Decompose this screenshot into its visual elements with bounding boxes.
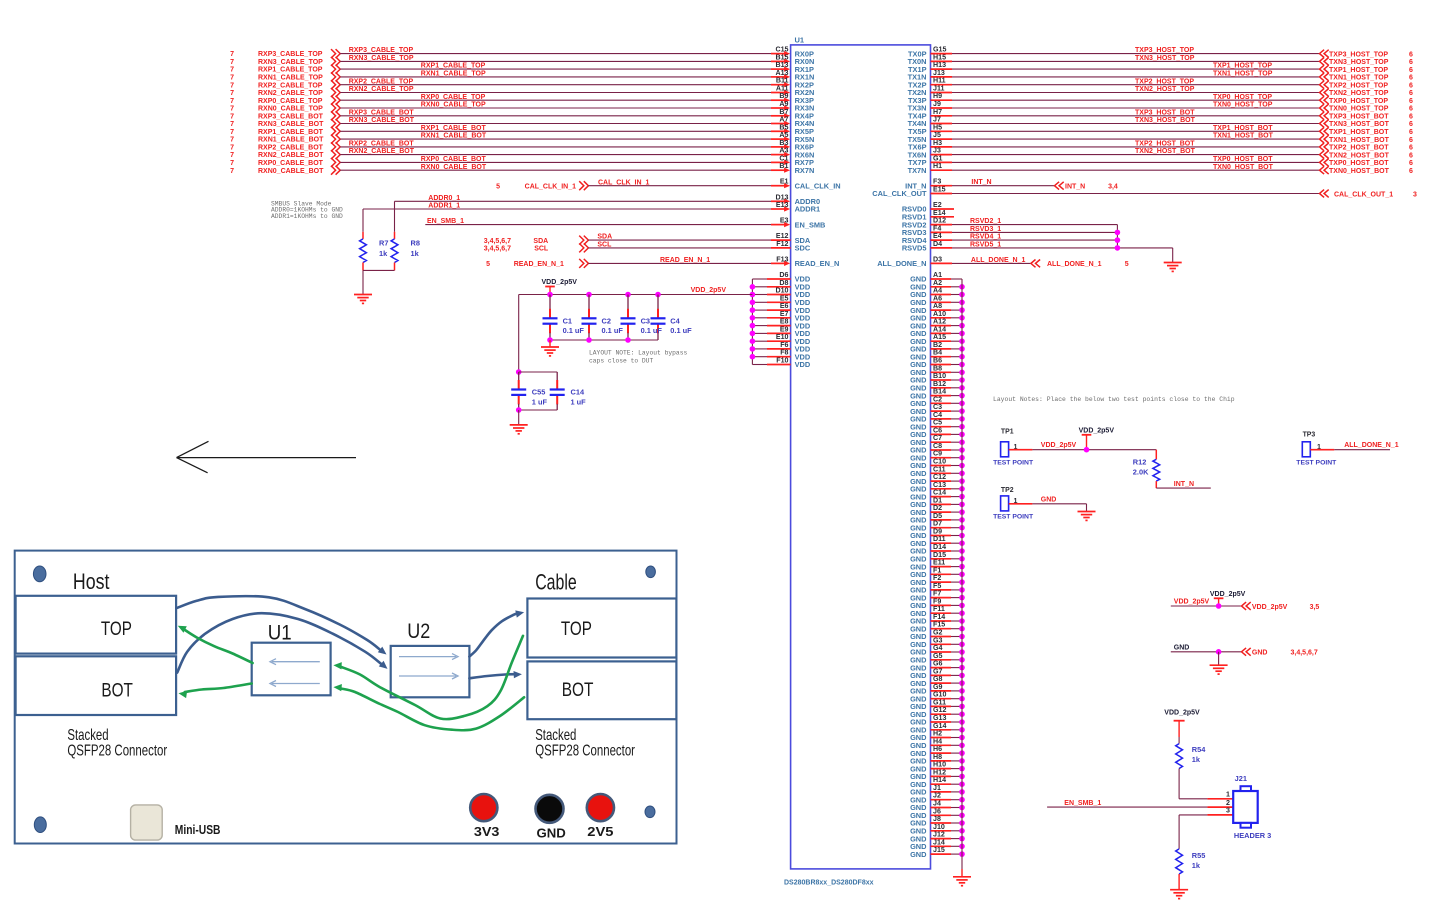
svg-text:G5: G5 <box>933 652 943 660</box>
svg-text:1: 1 <box>1226 791 1230 799</box>
svg-text:6: 6 <box>1409 160 1413 167</box>
svg-text:E15: E15 <box>933 186 946 194</box>
svg-text:RXN2_CABLE_BOT: RXN2_CABLE_BOT <box>258 152 324 159</box>
svg-text:7: 7 <box>230 75 234 82</box>
svg-text:F11: F11 <box>933 605 945 613</box>
svg-text:TXN0_HOST_TOP: TXN0_HOST_TOP <box>1213 102 1273 109</box>
svg-text:G2: G2 <box>933 629 943 637</box>
svg-text:INT_N: INT_N <box>1174 481 1194 488</box>
svg-text:R54: R54 <box>1192 745 1206 754</box>
svg-text:TXN0_HOST_BOT: TXN0_HOST_BOT <box>1213 164 1274 171</box>
svg-text:6: 6 <box>1409 168 1413 175</box>
svg-text:6: 6 <box>1409 114 1413 121</box>
svg-text:7: 7 <box>230 113 234 120</box>
svg-text:C13: C13 <box>933 481 946 489</box>
svg-text:Stacked: Stacked <box>535 727 576 744</box>
svg-text:EN_SMB_1: EN_SMB_1 <box>1064 800 1101 807</box>
svg-text:RXP0_CABLE_BOT: RXP0_CABLE_BOT <box>258 160 324 167</box>
svg-text:TXP2_HOST_BOT: TXP2_HOST_BOT <box>1135 141 1195 148</box>
svg-text:7: 7 <box>230 59 234 66</box>
svg-text:CAL_CLK_IN_1: CAL_CLK_IN_1 <box>525 184 576 191</box>
svg-text:E14: E14 <box>933 209 946 217</box>
svg-text:3: 3 <box>1226 807 1230 815</box>
svg-text:RSVD5: RSVD5 <box>902 244 927 253</box>
svg-text:3V3: 3V3 <box>474 824 500 839</box>
svg-text:E5: E5 <box>780 294 789 302</box>
svg-text:C3: C3 <box>641 316 650 325</box>
svg-text:VDD_2p5V: VDD_2p5V <box>1252 604 1288 611</box>
svg-text:C4: C4 <box>933 411 942 419</box>
svg-text:C14: C14 <box>571 388 585 397</box>
svg-text:E7: E7 <box>780 310 789 318</box>
svg-text:6: 6 <box>1409 145 1413 152</box>
svg-text:7: 7 <box>230 90 234 97</box>
svg-text:B10: B10 <box>933 372 946 380</box>
svg-text:7: 7 <box>230 145 234 152</box>
svg-text:TXP2_HOST_BOT: TXP2_HOST_BOT <box>1329 145 1389 152</box>
svg-text:TXN1_HOST_BOT: TXN1_HOST_BOT <box>1329 137 1390 144</box>
svg-text:C2: C2 <box>602 316 611 325</box>
svg-text:2: 2 <box>1226 799 1230 807</box>
svg-text:A6: A6 <box>933 294 942 302</box>
svg-text:READ_EN_N_1: READ_EN_N_1 <box>660 257 710 264</box>
svg-text:D2: D2 <box>933 504 942 512</box>
svg-text:Mini-USB: Mini-USB <box>175 823 221 837</box>
svg-text:RSVD2_1: RSVD2_1 <box>970 218 1001 225</box>
svg-text:J2: J2 <box>933 792 941 800</box>
svg-text:RXP2_CABLE_TOP: RXP2_CABLE_TOP <box>349 78 414 85</box>
svg-text:R7: R7 <box>379 239 388 248</box>
svg-text:ALL_DONE_N_1: ALL_DONE_N_1 <box>1047 261 1102 268</box>
svg-text:B1: B1 <box>779 162 788 170</box>
svg-text:6: 6 <box>1409 121 1413 128</box>
svg-text:C2: C2 <box>933 395 942 403</box>
svg-text:H2: H2 <box>933 730 942 738</box>
svg-text:D7: D7 <box>933 520 942 528</box>
svg-text:TP1: TP1 <box>1001 429 1014 436</box>
svg-text:C6: C6 <box>933 426 942 434</box>
svg-text:RXP3_CABLE_BOT: RXP3_CABLE_BOT <box>258 113 324 120</box>
svg-text:7: 7 <box>230 152 234 159</box>
svg-text:TP2: TP2 <box>1001 487 1014 494</box>
svg-text:D10: D10 <box>775 287 788 295</box>
svg-text:TXN2_HOST_TOP: TXN2_HOST_TOP <box>1329 90 1389 97</box>
svg-text:DS280BR8xx_DS280DF8xx: DS280BR8xx_DS280DF8xx <box>784 880 874 887</box>
svg-text:J1: J1 <box>933 784 941 792</box>
svg-text:VDD_2p5V: VDD_2p5V <box>1210 591 1246 598</box>
svg-text:RXP2_CABLE_BOT: RXP2_CABLE_BOT <box>258 145 324 152</box>
svg-text:RXP1_CABLE_TOP: RXP1_CABLE_TOP <box>258 67 323 74</box>
svg-text:1k: 1k <box>1192 861 1201 870</box>
svg-text:GND: GND <box>1041 496 1057 503</box>
svg-text:RXN2_CABLE_TOP: RXN2_CABLE_TOP <box>349 86 414 93</box>
svg-text:F8: F8 <box>780 349 788 357</box>
svg-text:TXN3_HOST_BOT: TXN3_HOST_BOT <box>1135 117 1196 124</box>
svg-text:1k: 1k <box>379 249 388 258</box>
svg-text:H10: H10 <box>933 761 946 769</box>
svg-text:TXP3_HOST_TOP: TXP3_HOST_TOP <box>1135 47 1194 54</box>
svg-text:RSVD3_1: RSVD3_1 <box>970 226 1001 233</box>
svg-text:F9: F9 <box>933 597 941 605</box>
svg-text:H12: H12 <box>933 768 946 776</box>
svg-text:TXP0_HOST_TOP: TXP0_HOST_TOP <box>1329 98 1388 105</box>
svg-text:ALL_DONE_N_1: ALL_DONE_N_1 <box>971 257 1026 264</box>
svg-text:VDD_2p5V: VDD_2p5V <box>1041 442 1077 449</box>
svg-text:RXP1_CABLE_BOT: RXP1_CABLE_BOT <box>258 129 324 136</box>
svg-text:A1: A1 <box>933 271 942 279</box>
svg-text:C15: C15 <box>775 46 788 54</box>
svg-text:C11: C11 <box>933 465 946 473</box>
svg-text:TXP1_HOST_BOT: TXP1_HOST_BOT <box>1213 125 1273 132</box>
svg-text:B5: B5 <box>779 123 788 131</box>
svg-text:F7: F7 <box>933 590 941 598</box>
svg-text:H9: H9 <box>933 92 942 100</box>
svg-text:J3: J3 <box>933 147 941 155</box>
svg-text:Cable: Cable <box>535 569 577 594</box>
svg-text:caps close to DUT: caps close to DUT <box>589 358 653 365</box>
svg-text:F2: F2 <box>933 574 941 582</box>
svg-text:RX7N: RX7N <box>795 166 815 175</box>
svg-text:A4: A4 <box>933 287 942 295</box>
svg-text:RXP1_CABLE_TOP: RXP1_CABLE_TOP <box>421 63 486 70</box>
svg-text:LAYOUT NOTE: Layout bypass: LAYOUT NOTE: Layout bypass <box>589 350 687 357</box>
svg-text:BOT: BOT <box>562 680 594 701</box>
svg-text:6: 6 <box>1409 137 1413 144</box>
svg-text:5: 5 <box>1125 261 1129 268</box>
svg-text:G4: G4 <box>933 644 943 652</box>
svg-text:2V5: 2V5 <box>587 824 613 839</box>
svg-text:1 uF: 1 uF <box>532 398 548 407</box>
svg-text:3,4,5,6,7: 3,4,5,6,7 <box>484 246 511 253</box>
svg-text:TX7N: TX7N <box>908 166 927 175</box>
svg-text:A12: A12 <box>933 318 946 326</box>
svg-text:0.1 uF: 0.1 uF <box>563 326 585 335</box>
svg-text:READ_EN_N_1: READ_EN_N_1 <box>514 261 564 268</box>
svg-text:GND: GND <box>1174 644 1190 651</box>
svg-text:F1: F1 <box>933 566 941 574</box>
svg-text:TXN1_HOST_TOP: TXN1_HOST_TOP <box>1329 75 1389 82</box>
svg-text:6: 6 <box>1409 106 1413 113</box>
svg-text:H4: H4 <box>933 737 942 745</box>
svg-text:TXP0_HOST_BOT: TXP0_HOST_BOT <box>1329 160 1389 167</box>
svg-text:VDD_2p5V: VDD_2p5V <box>1174 598 1210 605</box>
svg-text:GND: GND <box>910 850 927 859</box>
svg-text:ADDR1: ADDR1 <box>795 205 820 214</box>
svg-text:J9: J9 <box>933 100 941 108</box>
svg-text:B6: B6 <box>933 357 942 365</box>
svg-text:G12: G12 <box>933 706 946 714</box>
svg-text:D4: D4 <box>933 240 942 248</box>
svg-text:RXN0_CABLE_TOP: RXN0_CABLE_TOP <box>258 106 323 113</box>
svg-text:R8: R8 <box>411 239 420 248</box>
svg-text:ADDR1=1KOHMs to GND: ADDR1=1KOHMs to GND <box>271 213 343 220</box>
svg-text:U1: U1 <box>795 35 805 44</box>
svg-text:RXN2_CABLE_BOT: RXN2_CABLE_BOT <box>349 148 415 155</box>
svg-text:7: 7 <box>230 67 234 74</box>
svg-text:RXN3_CABLE_TOP: RXN3_CABLE_TOP <box>258 59 323 66</box>
svg-text:TEST POINT: TEST POINT <box>993 514 1034 521</box>
svg-text:6: 6 <box>1409 67 1413 74</box>
svg-text:6: 6 <box>1409 98 1413 105</box>
svg-text:A5: A5 <box>779 131 788 139</box>
svg-text:7: 7 <box>230 82 234 89</box>
svg-text:A13: A13 <box>775 69 788 77</box>
svg-text:RXN2_CABLE_TOP: RXN2_CABLE_TOP <box>258 90 323 97</box>
svg-text:TXP3_HOST_TOP: TXP3_HOST_TOP <box>1329 51 1388 58</box>
svg-text:INT_N: INT_N <box>971 179 991 186</box>
svg-text:7: 7 <box>230 98 234 105</box>
svg-text:C1: C1 <box>779 154 788 162</box>
svg-text:RXN1_CABLE_TOP: RXN1_CABLE_TOP <box>258 75 323 82</box>
svg-text:C10: C10 <box>933 458 946 466</box>
svg-text:A9: A9 <box>779 100 788 108</box>
svg-text:GND: GND <box>537 826 566 841</box>
svg-text:J15: J15 <box>933 846 945 854</box>
svg-text:G13: G13 <box>933 714 946 722</box>
svg-text:6: 6 <box>1409 129 1413 136</box>
svg-text:RXN1_CABLE_BOT: RXN1_CABLE_BOT <box>258 137 324 144</box>
svg-text:TP3: TP3 <box>1303 431 1316 438</box>
svg-text:VDD_2p5V: VDD_2p5V <box>542 279 578 286</box>
svg-text:RXN0_CABLE_BOT: RXN0_CABLE_BOT <box>421 164 487 171</box>
svg-text:INT_N: INT_N <box>1065 184 1085 191</box>
svg-text:G15: G15 <box>933 46 946 54</box>
svg-text:VDD_2p5V: VDD_2p5V <box>1079 427 1115 434</box>
svg-text:SDA: SDA <box>597 234 612 241</box>
svg-text:RXP3_CABLE_BOT: RXP3_CABLE_BOT <box>349 109 415 116</box>
svg-text:B13: B13 <box>775 61 788 69</box>
svg-text:J13: J13 <box>933 69 945 77</box>
svg-text:J21: J21 <box>1235 774 1247 783</box>
svg-text:F3: F3 <box>933 178 941 186</box>
svg-text:RXN3_CABLE_TOP: RXN3_CABLE_TOP <box>349 55 414 62</box>
svg-text:5: 5 <box>496 184 500 191</box>
svg-text:G9: G9 <box>933 683 943 691</box>
svg-text:RXP3_CABLE_TOP: RXP3_CABLE_TOP <box>258 51 323 58</box>
svg-text:U2: U2 <box>407 619 430 643</box>
svg-text:G8: G8 <box>933 675 943 683</box>
svg-text:H5: H5 <box>933 123 942 131</box>
svg-text:CAL_CLK_OUT_1: CAL_CLK_OUT_1 <box>1334 191 1393 198</box>
svg-text:Host: Host <box>73 569 110 594</box>
svg-text:RXP0_CABLE_BOT: RXP0_CABLE_BOT <box>421 156 487 163</box>
svg-text:J10: J10 <box>933 823 945 831</box>
svg-text:ALL_DONE_N: ALL_DONE_N <box>877 259 926 268</box>
svg-text:A7: A7 <box>779 116 788 124</box>
svg-text:7: 7 <box>230 137 234 144</box>
svg-text:TXN2_HOST_BOT: TXN2_HOST_BOT <box>1329 152 1390 159</box>
svg-text:TXP0_HOST_TOP: TXP0_HOST_TOP <box>1213 94 1272 101</box>
svg-text:SCL: SCL <box>597 242 612 249</box>
svg-text:TOP: TOP <box>101 619 132 640</box>
svg-text:HEADER 3: HEADER 3 <box>1234 831 1271 840</box>
svg-text:CAL_CLK_IN: CAL_CLK_IN <box>795 181 841 190</box>
svg-text:C14: C14 <box>933 489 946 497</box>
svg-text:B9: B9 <box>779 92 788 100</box>
svg-text:VDD_2p5V: VDD_2p5V <box>1164 710 1200 717</box>
svg-text:7: 7 <box>230 168 234 175</box>
svg-text:TXN1_HOST_BOT: TXN1_HOST_BOT <box>1213 133 1274 140</box>
svg-text:6: 6 <box>1409 152 1413 159</box>
svg-text:TEST POINT: TEST POINT <box>1296 459 1337 466</box>
svg-text:H1: H1 <box>933 162 942 170</box>
svg-text:6: 6 <box>1409 75 1413 82</box>
svg-text:H13: H13 <box>933 61 946 69</box>
svg-text:TXN3_HOST_BOT: TXN3_HOST_BOT <box>1329 121 1390 128</box>
svg-text:RXP1_CABLE_BOT: RXP1_CABLE_BOT <box>421 125 487 132</box>
svg-text:F6: F6 <box>780 341 788 349</box>
svg-text:B2: B2 <box>933 341 942 349</box>
svg-text:RXN3_CABLE_BOT: RXN3_CABLE_BOT <box>258 121 324 128</box>
svg-text:C1: C1 <box>563 316 572 325</box>
svg-text:Layout Notes: Place the below: Layout Notes: Place the below two test p… <box>993 396 1235 403</box>
svg-text:7: 7 <box>230 160 234 167</box>
svg-text:3,5: 3,5 <box>1310 604 1320 611</box>
svg-text:H11: H11 <box>933 77 946 85</box>
svg-text:BOT: BOT <box>101 680 133 701</box>
svg-text:3: 3 <box>1413 191 1417 198</box>
svg-text:TXN3_HOST_TOP: TXN3_HOST_TOP <box>1135 55 1195 62</box>
svg-text:G6: G6 <box>933 660 943 668</box>
svg-text:TXP2_HOST_TOP: TXP2_HOST_TOP <box>1135 78 1194 85</box>
svg-text:7: 7 <box>230 106 234 113</box>
svg-text:C7: C7 <box>933 434 942 442</box>
svg-text:RXP3_CABLE_TOP: RXP3_CABLE_TOP <box>349 47 414 54</box>
svg-text:VDD: VDD <box>795 360 811 369</box>
svg-text:F15: F15 <box>933 621 945 629</box>
svg-text:J7: J7 <box>933 116 941 124</box>
svg-text:RXP2_CABLE_TOP: RXP2_CABLE_TOP <box>258 82 323 89</box>
svg-text:TXP0_HOST_BOT: TXP0_HOST_BOT <box>1213 156 1273 163</box>
svg-text:TXP3_HOST_BOT: TXP3_HOST_BOT <box>1135 109 1195 116</box>
svg-text:E4: E4 <box>933 232 942 240</box>
svg-text:SDC: SDC <box>795 244 811 253</box>
svg-text:TXN0_HOST_TOP: TXN0_HOST_TOP <box>1329 106 1389 113</box>
svg-text:J4: J4 <box>933 800 941 808</box>
svg-text:TXN3_HOST_TOP: TXN3_HOST_TOP <box>1329 59 1389 66</box>
svg-text:7: 7 <box>230 51 234 58</box>
svg-text:6: 6 <box>1409 90 1413 97</box>
svg-text:3,4: 3,4 <box>1108 184 1118 191</box>
svg-text:GND: GND <box>1252 650 1268 657</box>
svg-text:C3: C3 <box>933 403 942 411</box>
svg-text:E2: E2 <box>933 201 942 209</box>
svg-text:7: 7 <box>230 129 234 136</box>
svg-text:CAL_CLK_IN_1: CAL_CLK_IN_1 <box>598 179 649 186</box>
svg-text:6: 6 <box>1409 51 1413 58</box>
svg-text:D3: D3 <box>933 255 942 263</box>
svg-text:TXN0_HOST_BOT: TXN0_HOST_BOT <box>1329 168 1390 175</box>
svg-text:QSFP28 Connector: QSFP28 Connector <box>67 743 167 760</box>
svg-text:SDA: SDA <box>533 238 548 245</box>
svg-text:TXN2_HOST_BOT: TXN2_HOST_BOT <box>1135 148 1196 155</box>
svg-text:VDD_2p5V: VDD_2p5V <box>691 287 727 294</box>
svg-text:F13: F13 <box>776 255 788 263</box>
svg-text:E13: E13 <box>776 201 789 209</box>
svg-text:D11: D11 <box>933 535 946 543</box>
svg-text:RXN0_CABLE_TOP: RXN0_CABLE_TOP <box>421 102 486 109</box>
svg-text:A3: A3 <box>779 147 788 155</box>
svg-text:READ_EN_N: READ_EN_N <box>795 259 840 268</box>
svg-text:E8: E8 <box>780 318 789 326</box>
svg-text:EN_SMB: EN_SMB <box>795 220 826 229</box>
svg-text:R55: R55 <box>1192 851 1206 860</box>
svg-text:1k: 1k <box>411 249 420 258</box>
svg-text:RXN1_CABLE_TOP: RXN1_CABLE_TOP <box>421 71 486 78</box>
svg-text:RSVD4_1: RSVD4_1 <box>970 234 1001 241</box>
svg-text:G1: G1 <box>933 154 943 162</box>
svg-text:6: 6 <box>1409 82 1413 89</box>
svg-text:TEST POINT: TEST POINT <box>993 459 1034 466</box>
svg-text:RXN0_CABLE_BOT: RXN0_CABLE_BOT <box>258 168 324 175</box>
svg-text:B11: B11 <box>776 77 789 85</box>
svg-text:RXP2_CABLE_BOT: RXP2_CABLE_BOT <box>349 141 415 148</box>
svg-text:C4: C4 <box>670 316 680 325</box>
svg-text:TXP2_HOST_TOP: TXP2_HOST_TOP <box>1329 82 1388 89</box>
svg-text:3,4,5,6,7: 3,4,5,6,7 <box>1291 650 1318 657</box>
svg-text:TXP1_HOST_TOP: TXP1_HOST_TOP <box>1329 67 1388 74</box>
svg-text:D14: D14 <box>933 543 946 551</box>
svg-text:E9: E9 <box>780 325 789 333</box>
svg-text:D15: D15 <box>933 551 946 559</box>
svg-text:0.1 uF: 0.1 uF <box>670 326 692 335</box>
svg-text:SCL: SCL <box>534 246 549 253</box>
svg-text:D5: D5 <box>933 512 942 520</box>
svg-text:ALL_DONE_N_1: ALL_DONE_N_1 <box>1344 442 1399 449</box>
svg-text:RXP0_CABLE_TOP: RXP0_CABLE_TOP <box>421 94 486 101</box>
svg-text:RXN1_CABLE_BOT: RXN1_CABLE_BOT <box>421 133 487 140</box>
svg-text:R12: R12 <box>1133 457 1147 466</box>
svg-text:B4: B4 <box>933 349 942 357</box>
svg-text:RXP0_CABLE_TOP: RXP0_CABLE_TOP <box>258 98 323 105</box>
svg-text:J5: J5 <box>933 131 941 139</box>
svg-text:U1: U1 <box>268 620 292 644</box>
svg-text:QSFP28 Connector: QSFP28 Connector <box>535 743 635 760</box>
svg-text:TXN2_HOST_TOP: TXN2_HOST_TOP <box>1135 86 1195 93</box>
svg-text:C9: C9 <box>933 450 942 458</box>
svg-text:TOP: TOP <box>561 619 592 640</box>
svg-text:J8: J8 <box>933 815 941 823</box>
svg-text:0.1 uF: 0.1 uF <box>602 326 624 335</box>
svg-text:C55: C55 <box>532 388 546 397</box>
svg-text:TXP3_HOST_BOT: TXP3_HOST_BOT <box>1329 114 1389 121</box>
svg-text:A14: A14 <box>933 325 946 333</box>
svg-text:2.0K: 2.0K <box>1133 467 1149 476</box>
svg-text:TXP1_HOST_BOT: TXP1_HOST_BOT <box>1329 129 1389 136</box>
svg-text:1 uF: 1 uF <box>571 398 587 407</box>
svg-text:6: 6 <box>1409 59 1413 66</box>
svg-text:J14: J14 <box>933 838 945 846</box>
svg-text:H6: H6 <box>933 745 942 753</box>
svg-text:RSVD5_1: RSVD5_1 <box>970 241 1001 248</box>
svg-text:A10: A10 <box>933 310 946 318</box>
svg-text:0.1 uF: 0.1 uF <box>641 326 663 335</box>
svg-text:D12: D12 <box>933 217 946 225</box>
svg-text:B12: B12 <box>933 380 946 388</box>
svg-text:F12: F12 <box>776 240 788 248</box>
svg-text:D6: D6 <box>779 271 788 279</box>
svg-text:5: 5 <box>486 261 490 268</box>
svg-text:G11: G11 <box>933 698 946 706</box>
svg-text:RXN3_CABLE_BOT: RXN3_CABLE_BOT <box>349 117 415 124</box>
svg-text:E12: E12 <box>776 232 789 240</box>
svg-text:1k: 1k <box>1192 755 1201 764</box>
svg-text:3,4,5,6,7: 3,4,5,6,7 <box>484 238 511 245</box>
svg-text:CAL_CLK_OUT: CAL_CLK_OUT <box>872 189 927 198</box>
svg-text:Stacked: Stacked <box>67 727 108 744</box>
svg-text:TXP1_HOST_TOP: TXP1_HOST_TOP <box>1213 63 1272 70</box>
svg-text:E1: E1 <box>780 178 789 186</box>
